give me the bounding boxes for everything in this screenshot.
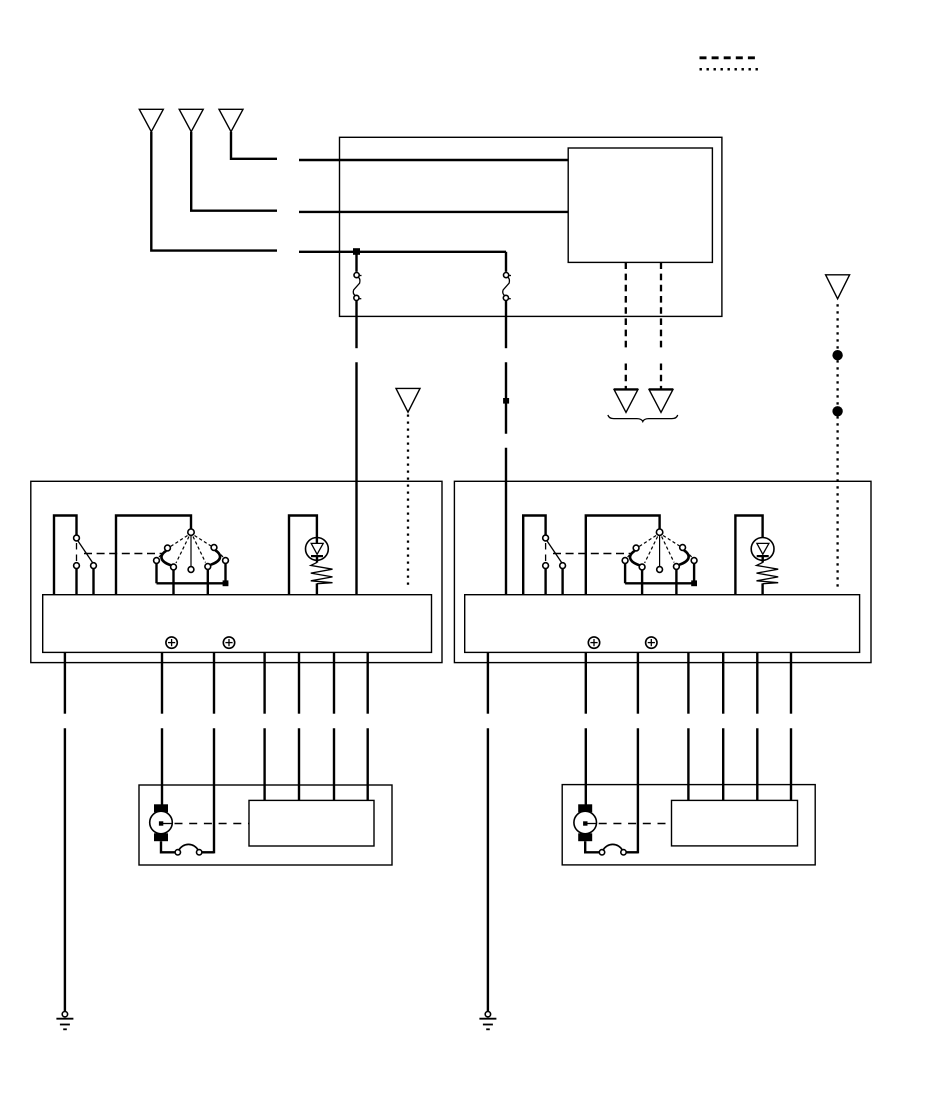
dashed wire from control unit pin 1 [625,262,627,347]
legend dotted line [700,68,759,71]
box1 indicator lamp [306,538,329,563]
box2 rotary contact low-left [639,564,645,570]
box1 rotary contact low-left [171,564,177,570]
wire strip2 to motor M2 [585,652,587,713]
box1 feed conductor center [116,516,191,595]
control unit inner box [568,148,712,262]
motor M1 park switch [161,841,214,855]
junction node on dotted wire (lower) [832,406,842,416]
box1 bus drop wires [155,564,157,584]
screw terminal S1 [166,637,177,648]
box1 rotary wiper arc left [161,551,171,566]
right motor internal unit box [672,800,798,846]
wire strip1 to park switch [213,652,215,713]
box2 SPDT switch arm [547,541,562,563]
box1 rotary switch pivot [188,529,194,535]
box1 rotary contact right [223,558,229,564]
box1 rotary contact left [154,558,160,564]
left motor assembly box [139,785,392,865]
wire from CB1 down to left switch module [355,301,357,348]
box2 SPDT dashed throw [545,543,547,562]
wire SPDT contact L to strip2 [544,569,546,595]
box2 rotary contact up-left [633,545,639,551]
dashed link motor M2 to unit [599,823,672,825]
box2 bus junction node [691,580,697,586]
box1 resistor [311,562,333,583]
dotted wire from triangle D into right switch module [836,304,838,589]
box2 rotary contact bottom [657,567,663,573]
box1 rotary contact bottom [188,567,194,573]
wire from triangle A2 [191,132,277,211]
box1 SPDT contact L [74,563,80,569]
box2 rotary contact left [622,558,628,564]
box2 SPDT switch common contact [543,535,549,541]
box1 rotary contact up-right [211,545,217,551]
box2 rotary switch pivot [656,529,662,535]
box1 feed conductor left [54,516,77,595]
circuit breaker CB1 [353,252,361,301]
connector triangle A2 [179,109,203,131]
top module outer box [340,137,722,316]
wire segment into control unit (top) [299,159,568,161]
box2 dashed control link [553,553,632,555]
box2 SPDT contact R [560,563,566,569]
wire strip2 pin5 down [722,652,724,713]
wire strip2 to park switch 2 [637,652,639,713]
wire strip2 pin6 down [756,652,758,713]
ground symbol right [479,1012,496,1030]
motor M1 [150,804,173,841]
connector triangle B1 [614,389,638,412]
wire segment to breakers (bottom feed) [299,251,506,253]
junction node on CB2 wire [503,398,509,404]
box1 bus junction node [223,580,229,586]
wire strip1 pin6 down [333,652,335,713]
dashed wire from control unit pin 2 [660,262,662,347]
box2 feed conductor right [735,516,762,595]
wire strip1 pin7 down [367,652,369,713]
box1 bus wire [157,582,229,584]
ground wire from box1 [64,652,66,713]
ground symbol left [56,1012,73,1030]
box1 rotary switch stem [190,536,192,566]
dotted wire from triangle C into left switch module [407,415,409,590]
dashed link motor M1 to unit [175,823,250,825]
box2 bus wire [625,582,697,584]
screw terminal S2 [223,637,234,648]
box1 rotary contact low-right [205,564,211,570]
box1 SPDT switch arm [78,541,93,563]
box2 feed conductor left [523,516,545,595]
box2 feed conductor center [586,516,660,595]
wire strip1 to motor M1 [161,652,163,713]
wire from triangle A1 [151,132,277,251]
box2 SPDT contact L [543,563,549,569]
motor M2 [574,804,597,841]
connector triangle A1 [139,109,163,131]
connector triangle C (mid-left) [396,388,420,412]
wire SPDT contact R to strip [92,569,94,595]
box1 SPDT dashed throw [76,543,78,562]
wire segment into control unit (middle) [299,211,568,213]
motor M2 park switch [585,841,638,855]
left motor internal unit box [249,800,374,846]
box2 resistor [757,562,779,583]
ground wire from box2 [487,652,489,713]
box1 SPDT contact R [91,563,97,569]
wire resistor2 to strip2 [761,583,763,594]
box1 rotary wiper arc right [211,550,221,565]
box1 rotary contact up-left [165,545,171,551]
box2 indicator lamp [751,538,774,563]
left switch module box [31,481,442,662]
screw terminal S3 [588,637,599,648]
legend dashed line [700,56,756,59]
wire strip2 pin7 down [790,652,792,713]
connector triangle D (right) [826,275,850,299]
wire strip2 pin4 down [687,652,689,713]
junction node on dotted wire (upper) [832,350,842,360]
wire from CB2 down to right switch module [505,301,507,348]
wire strip1 pin4 down [263,652,265,713]
box1 feed conductor right [289,516,317,595]
connector triangle B2 [649,389,673,412]
right motor assembly box [562,785,815,865]
wire SPDT contact L to strip [75,569,77,595]
left module connector strip [43,595,432,653]
connector triangle A3 [219,109,243,131]
box1 rotary dashed rays [159,536,224,564]
junction node at breaker 1 [353,248,360,255]
underbrace grouping B1 B2 [608,415,678,422]
wire resistor to strip [316,583,318,594]
box2 bus drop wires [624,564,626,584]
screw terminal S4 [646,637,657,648]
box2 rotary wiper arc right [679,550,689,565]
box2 rotary dashed rays [628,536,693,564]
circuit breaker CB2 [503,252,511,301]
box1 dashed control link [84,553,163,555]
wire from triangle A3 [231,132,277,159]
box2 rotary contact low-right [674,564,680,570]
box1 SPDT switch common contact [74,535,80,541]
right module connector strip [465,595,860,653]
wire SPDT contact R to strip2 [561,569,563,595]
box2 rotary contact right [691,558,697,564]
wire strip1 pin5 down [298,652,300,713]
box2 rotary switch stem [659,536,661,566]
right switch module box [454,481,871,662]
box2 rotary contact up-right [680,545,686,551]
box2 rotary wiper arc left [630,551,640,566]
